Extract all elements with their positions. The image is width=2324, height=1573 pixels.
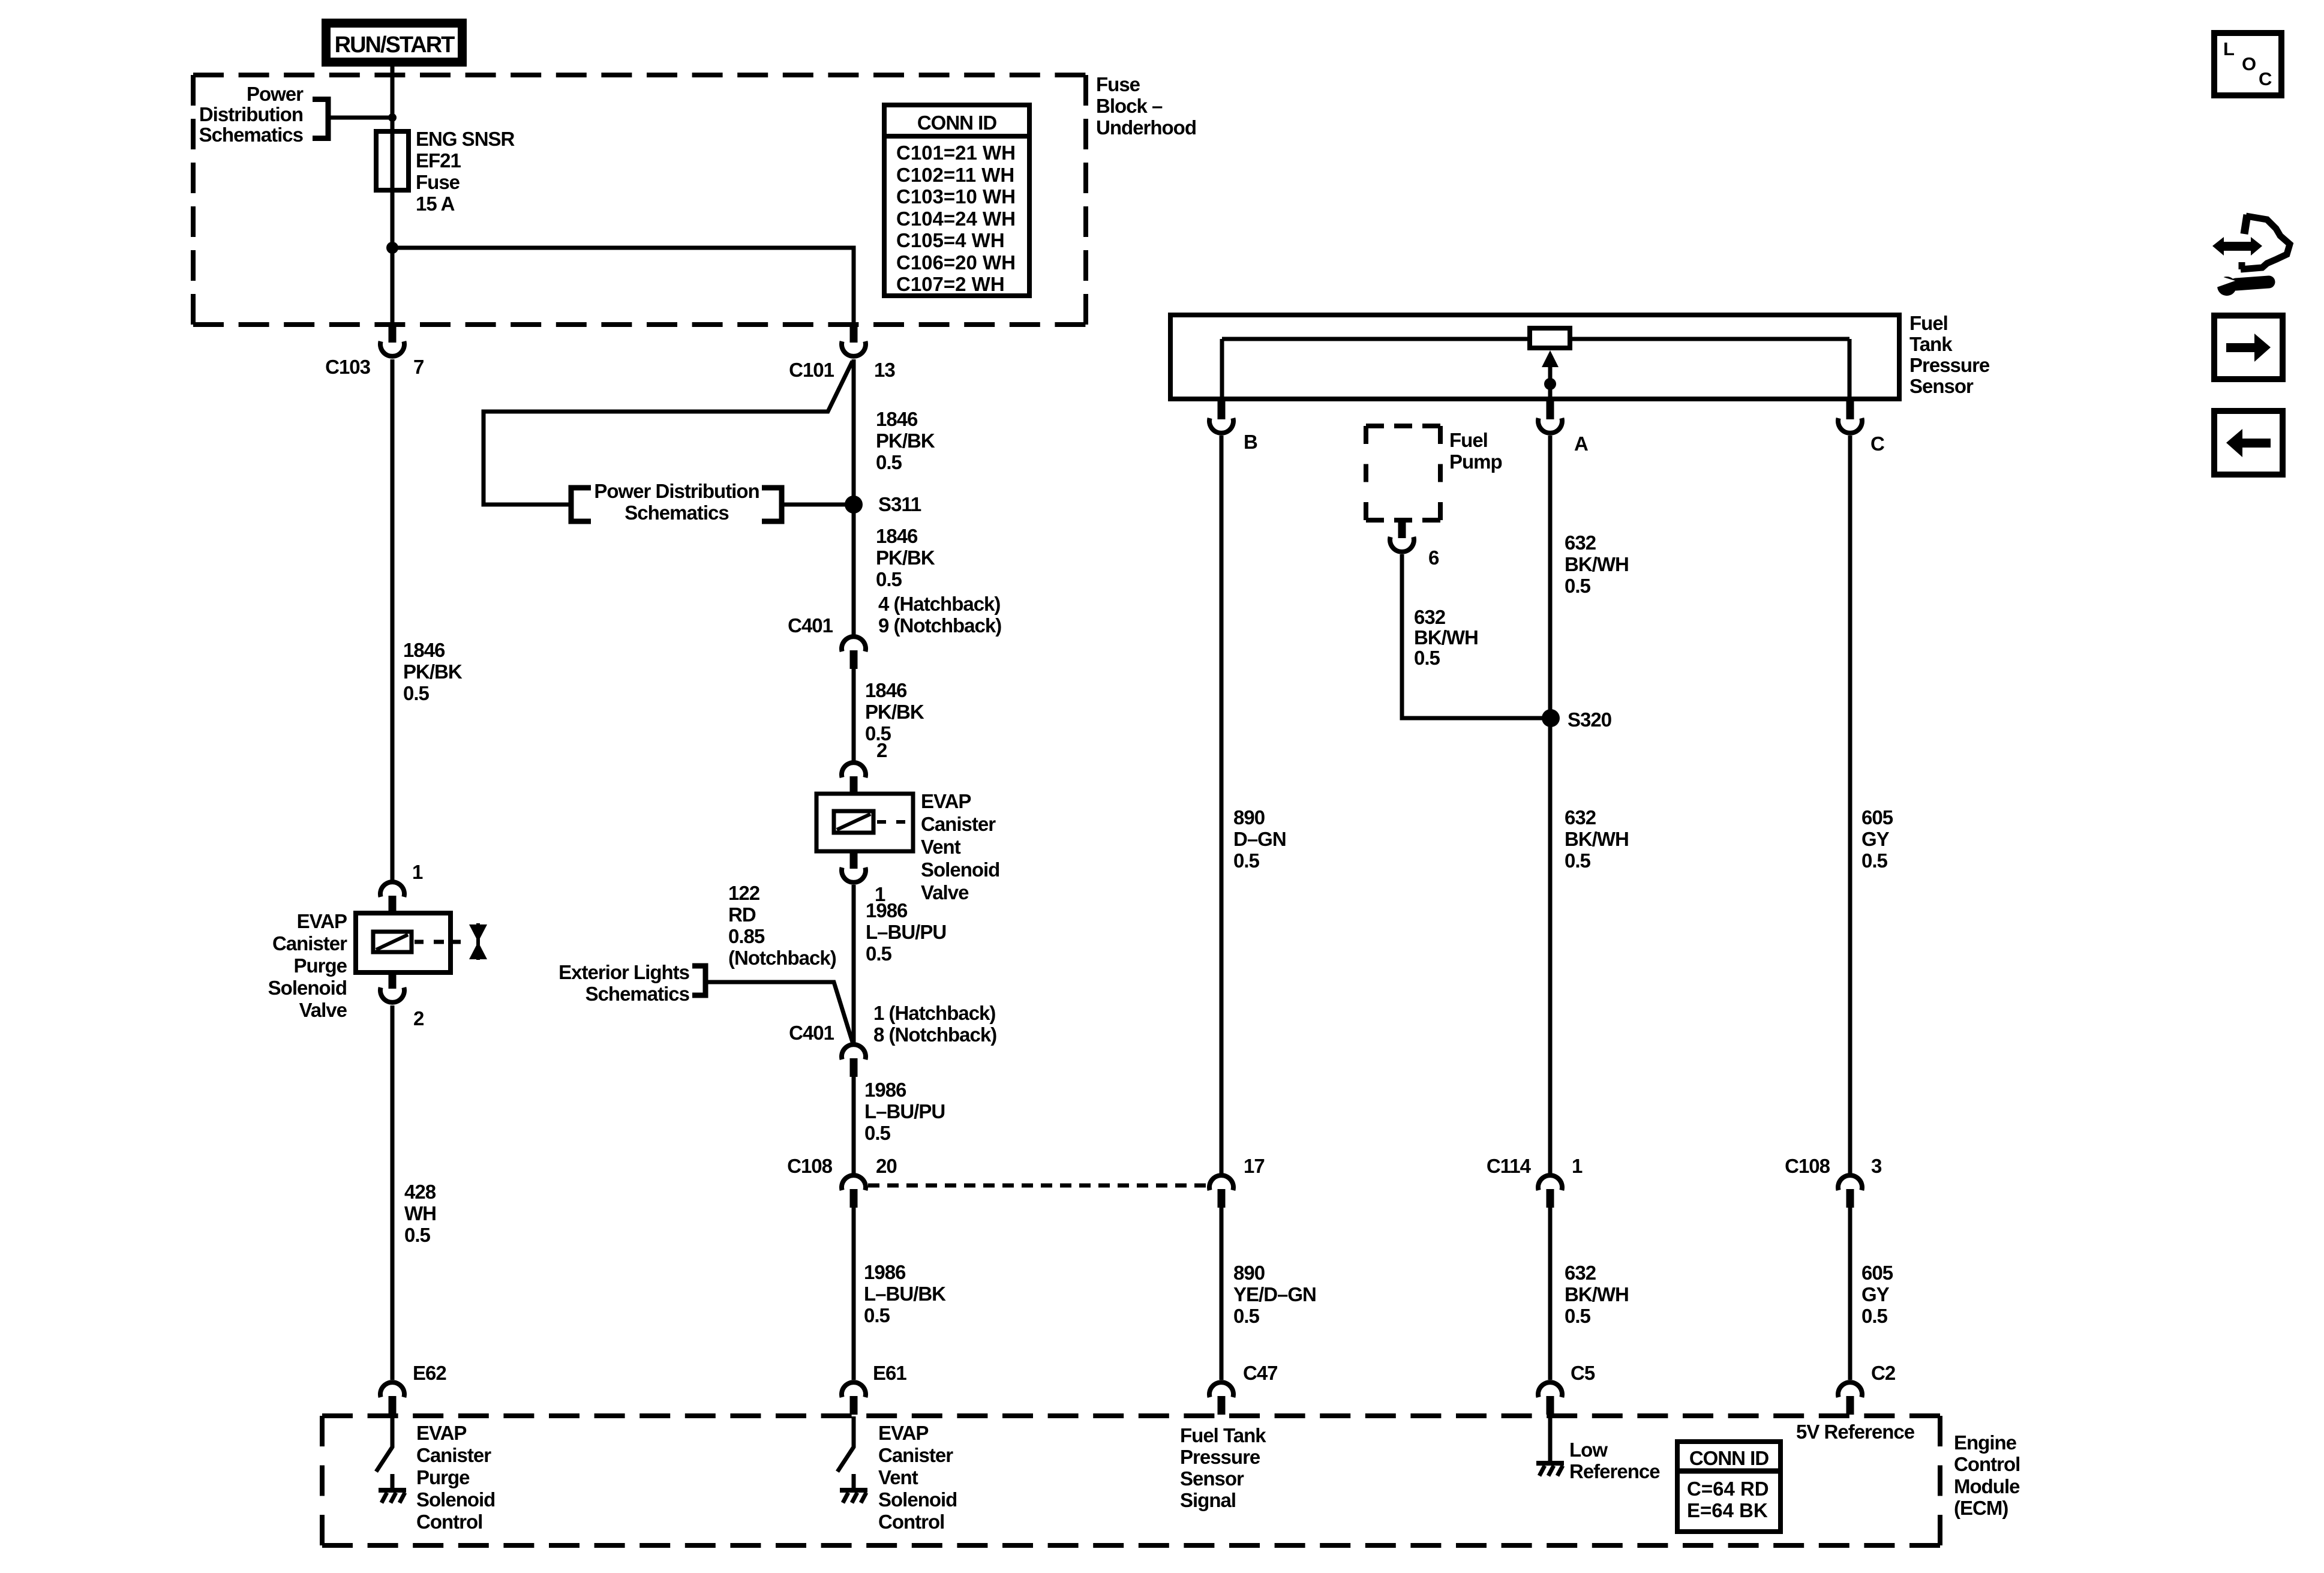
svg-text:1846: 1846 [403, 639, 445, 661]
svg-text:C102=11 WH: C102=11 WH [896, 164, 1014, 186]
svg-text:EVAP: EVAP [416, 1422, 466, 1444]
svg-text:Vent: Vent [878, 1466, 918, 1488]
svg-text:Tank: Tank [1909, 333, 1953, 355]
svg-text:O: O [2242, 53, 2256, 74]
svg-text:Pump: Pump [1449, 451, 1502, 473]
svg-text:Fuel Tank: Fuel Tank [1180, 1424, 1266, 1446]
svg-text:Solenoid: Solenoid [268, 977, 347, 999]
svg-text:Canister: Canister [272, 932, 347, 954]
svg-text:0.5: 0.5 [404, 1224, 431, 1246]
svg-text:1986: 1986 [866, 899, 908, 921]
svg-text:BK/WH: BK/WH [1565, 828, 1629, 850]
svg-text:0.5: 0.5 [1233, 1305, 1260, 1327]
svg-text:Canister: Canister [921, 813, 996, 835]
svg-text:S311: S311 [878, 493, 921, 515]
svg-text:C5: C5 [1571, 1362, 1595, 1384]
svg-text:BK/WH: BK/WH [1565, 1283, 1629, 1305]
svg-text:Underhood: Underhood [1096, 116, 1196, 139]
svg-text:6: 6 [1428, 547, 1439, 569]
svg-text:0.5: 0.5 [1861, 849, 1888, 872]
svg-text:0.5: 0.5 [864, 1122, 891, 1144]
svg-text:Engine: Engine [1954, 1431, 2017, 1454]
svg-text:122: 122 [728, 882, 760, 904]
svg-text:C: C [1870, 433, 1884, 455]
svg-text:890: 890 [1233, 1262, 1265, 1284]
svg-text:Fuse: Fuse [1096, 73, 1140, 95]
svg-text:1986: 1986 [864, 1261, 906, 1283]
svg-text:Power Distribution: Power Distribution [594, 480, 759, 502]
svg-text:A: A [1574, 433, 1588, 455]
svg-text:ENG SNSR: ENG SNSR [416, 128, 515, 150]
svg-text:C101=21 WH: C101=21 WH [896, 142, 1016, 164]
svg-text:CONN ID: CONN ID [917, 112, 997, 134]
svg-text:13: 13 [874, 359, 895, 381]
svg-text:7: 7 [413, 356, 424, 378]
svg-text:0.5: 0.5 [1565, 575, 1591, 597]
svg-text:EF21: EF21 [416, 149, 461, 172]
svg-text:2: 2 [876, 739, 887, 761]
svg-text:1: 1 [1572, 1155, 1583, 1177]
svg-text:1846: 1846 [876, 525, 918, 547]
svg-text:0.5: 0.5 [1565, 1305, 1591, 1327]
svg-text:L–BU/BK: L–BU/BK [864, 1283, 946, 1305]
svg-text:BK/WH: BK/WH [1414, 626, 1478, 649]
svg-text:Pressure: Pressure [1180, 1446, 1260, 1468]
svg-text:0.5: 0.5 [864, 1304, 890, 1326]
svg-text:605: 605 [1861, 806, 1893, 828]
svg-text:C103=10 WH: C103=10 WH [896, 185, 1016, 208]
svg-text:632: 632 [1414, 606, 1446, 628]
svg-text:3: 3 [1871, 1155, 1882, 1177]
svg-text:D–GN: D–GN [1233, 828, 1286, 850]
svg-text:Schematics: Schematics [585, 983, 689, 1005]
svg-text:Module: Module [1954, 1475, 2020, 1497]
svg-text:C108: C108 [787, 1155, 833, 1177]
svg-text:PK/BK: PK/BK [403, 661, 463, 683]
svg-text:WH: WH [404, 1202, 436, 1224]
svg-text:0.5: 0.5 [876, 451, 902, 473]
svg-text:Sensor: Sensor [1180, 1467, 1244, 1490]
svg-text:Power: Power [247, 83, 304, 105]
svg-text:605: 605 [1861, 1262, 1893, 1284]
svg-text:Distribution: Distribution [199, 103, 303, 125]
svg-text:C105=4 WH: C105=4 WH [896, 229, 1005, 251]
svg-text:EVAP: EVAP [878, 1422, 928, 1444]
svg-text:Schematics: Schematics [199, 124, 303, 146]
svg-text:17: 17 [1244, 1155, 1265, 1177]
svg-text:CONN ID: CONN ID [1689, 1447, 1769, 1469]
svg-text:C101: C101 [789, 359, 834, 381]
svg-text:(ECM): (ECM) [1954, 1497, 2008, 1519]
svg-text:1: 1 [412, 861, 423, 883]
svg-text:C=64 RD: C=64 RD [1687, 1478, 1769, 1500]
svg-text:Solenoid: Solenoid [921, 858, 999, 881]
svg-text:Valve: Valve [921, 881, 969, 903]
svg-text:Purge: Purge [416, 1466, 470, 1488]
svg-text:0.5: 0.5 [403, 682, 430, 704]
svg-text:C: C [2259, 68, 2272, 89]
svg-text:Solenoid: Solenoid [416, 1488, 495, 1511]
svg-text:C401: C401 [788, 614, 833, 637]
svg-text:0.5: 0.5 [1233, 849, 1260, 872]
svg-text:B: B [1244, 431, 1257, 453]
svg-text:Control: Control [1954, 1453, 2020, 1475]
svg-text:Canister: Canister [416, 1444, 491, 1466]
svg-text:0.5: 0.5 [1414, 647, 1440, 669]
svg-text:632: 632 [1565, 532, 1596, 554]
svg-text:15 A: 15 A [416, 193, 455, 215]
svg-text:Valve: Valve [299, 999, 347, 1021]
svg-text:E62: E62 [413, 1362, 446, 1384]
svg-text:YE/D–GN: YE/D–GN [1233, 1283, 1316, 1305]
svg-text:S320: S320 [1568, 709, 1611, 731]
svg-text:Vent: Vent [921, 836, 961, 858]
svg-text:C107=2 WH: C107=2 WH [896, 273, 1005, 295]
svg-text:1986: 1986 [864, 1079, 906, 1101]
svg-text:C106=20 WH: C106=20 WH [896, 251, 1016, 274]
svg-text:Control: Control [878, 1511, 944, 1533]
svg-text:Pressure: Pressure [1909, 354, 1990, 376]
svg-text:PK/BK: PK/BK [876, 430, 935, 452]
svg-text:GY: GY [1861, 828, 1890, 850]
svg-text:0.5: 0.5 [1861, 1305, 1888, 1327]
svg-text:Canister: Canister [878, 1444, 953, 1466]
svg-text:5V Reference: 5V Reference [1796, 1421, 1915, 1443]
svg-text:C103: C103 [325, 356, 371, 378]
svg-text:RUN/START: RUN/START [335, 32, 455, 58]
svg-text:1846: 1846 [876, 408, 918, 430]
svg-text:Purge: Purge [293, 954, 347, 977]
svg-text:E61: E61 [873, 1362, 906, 1384]
svg-text:BK/WH: BK/WH [1565, 553, 1629, 575]
svg-text:C47: C47 [1243, 1362, 1278, 1384]
svg-text:Reference: Reference [1569, 1460, 1660, 1482]
svg-text:0.85: 0.85 [728, 925, 765, 947]
svg-text:0.5: 0.5 [866, 942, 892, 965]
svg-text:C114: C114 [1487, 1155, 1532, 1177]
svg-text:(Notchback): (Notchback) [728, 947, 836, 969]
svg-text:PK/BK: PK/BK [876, 547, 935, 569]
svg-text:C401: C401 [789, 1022, 834, 1044]
svg-text:9 (Notchback): 9 (Notchback) [878, 614, 1001, 637]
svg-text:1846: 1846 [865, 679, 907, 701]
svg-text:Block –: Block – [1096, 95, 1163, 117]
svg-text:L–BU/PU: L–BU/PU [864, 1100, 945, 1122]
svg-text:EVAP: EVAP [921, 790, 971, 812]
svg-text:0.5: 0.5 [876, 568, 902, 590]
svg-text:L: L [2223, 38, 2235, 59]
svg-text:Schematics: Schematics [624, 502, 728, 524]
svg-text:4 (Hatchback): 4 (Hatchback) [878, 593, 1000, 615]
svg-text:632: 632 [1565, 806, 1596, 828]
svg-text:RD: RD [728, 903, 756, 926]
svg-text:C108: C108 [1785, 1155, 1830, 1177]
svg-text:E=64 BK: E=64 BK [1687, 1499, 1768, 1521]
svg-text:1 (Hatchback): 1 (Hatchback) [873, 1002, 995, 1024]
svg-text:PK/BK: PK/BK [865, 701, 924, 723]
svg-text:632: 632 [1565, 1262, 1596, 1284]
svg-text:890: 890 [1233, 806, 1265, 828]
svg-text:0.5: 0.5 [1565, 849, 1591, 872]
svg-text:2: 2 [413, 1007, 424, 1029]
svg-text:Control: Control [416, 1511, 482, 1533]
svg-text:428: 428 [404, 1181, 436, 1203]
svg-text:Fuse: Fuse [416, 171, 460, 193]
svg-text:Solenoid: Solenoid [878, 1488, 957, 1511]
svg-text:20: 20 [876, 1155, 897, 1177]
svg-text:8 (Notchback): 8 (Notchback) [873, 1023, 996, 1046]
svg-text:EVAP: EVAP [297, 910, 347, 932]
svg-text:C104=24 WH: C104=24 WH [896, 208, 1016, 230]
svg-text:Exterior Lights: Exterior Lights [559, 961, 689, 983]
svg-text:Fuel: Fuel [1909, 312, 1948, 334]
svg-text:Low: Low [1569, 1439, 1608, 1461]
svg-text:L–BU/PU: L–BU/PU [866, 921, 946, 943]
svg-text:Fuel: Fuel [1449, 429, 1488, 451]
svg-text:Signal: Signal [1180, 1489, 1236, 1511]
svg-text:Sensor: Sensor [1909, 375, 1974, 397]
svg-text:C2: C2 [1871, 1362, 1896, 1384]
svg-text:GY: GY [1861, 1283, 1890, 1305]
